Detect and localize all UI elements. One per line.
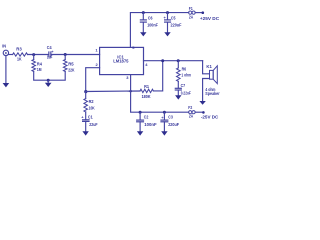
wire <box>64 55 66 60</box>
svg-text:R3: R3 <box>16 47 22 52</box>
svg-text:1M: 1M <box>37 67 42 72</box>
svg-text:C3: C3 <box>168 115 173 120</box>
node junction C5 <box>166 11 169 14</box>
ground <box>164 32 170 36</box>
wire <box>85 112 87 120</box>
wire <box>167 22 169 32</box>
ground <box>161 131 167 135</box>
ground <box>199 101 205 105</box>
resistor R1 <box>140 84 153 99</box>
svg-text:R5: R5 <box>68 61 74 66</box>
node junction R5 <box>64 53 67 56</box>
node terminal +25V <box>202 11 205 14</box>
node junction zobel <box>177 59 180 62</box>
wire <box>139 112 141 120</box>
svg-text:22uF: 22uF <box>89 122 98 127</box>
fuse F2 <box>188 105 195 119</box>
svg-text:C1: C1 <box>88 114 93 119</box>
svg-text:+25V DC: +25V DC <box>200 16 220 21</box>
ground <box>137 131 143 135</box>
node junction C3 <box>163 111 166 114</box>
svg-text:IN: IN <box>2 43 6 48</box>
svg-text:C5: C5 <box>171 15 176 20</box>
wire <box>34 72 49 81</box>
svg-text:2A: 2A <box>189 114 193 119</box>
node junction R4 <box>32 53 35 56</box>
wire signal line <box>9 54 13 56</box>
resistor R5 <box>63 60 75 73</box>
svg-text:C2: C2 <box>144 115 149 120</box>
svg-text:C7: C7 <box>181 83 186 88</box>
svg-text:100nF: 100nF <box>144 122 157 127</box>
svg-text:F1: F1 <box>189 6 193 11</box>
svg-text:+: + <box>81 115 84 120</box>
svg-text:180K: 180K <box>142 94 152 99</box>
wire pin3 to V- rail <box>131 75 189 113</box>
wire <box>163 122 165 131</box>
wire <box>163 112 165 120</box>
node crossing pin3 <box>129 90 132 93</box>
capacitor C3 <box>161 115 179 128</box>
svg-text:1: 1 <box>95 47 98 52</box>
node junction C2 <box>139 111 142 114</box>
input jack J1 <box>2 43 8 55</box>
wire <box>153 61 162 91</box>
svg-text:2: 2 <box>96 62 99 67</box>
svg-text:1K: 1K <box>17 57 22 62</box>
wire <box>28 54 49 56</box>
svg-text:-25V DC: -25V DC <box>201 115 219 120</box>
fuse F1 <box>189 6 196 20</box>
svg-text:LM1875: LM1875 <box>113 58 129 63</box>
wire output to speaker <box>203 61 210 74</box>
wire <box>177 61 179 68</box>
wire <box>51 54 100 56</box>
svg-text:+: + <box>51 49 54 54</box>
speaker K1 <box>205 64 220 96</box>
wire <box>195 111 202 113</box>
svg-text:2A: 2A <box>189 14 193 19</box>
resistor R2 <box>84 99 95 113</box>
node junction ground R4 R5 <box>47 79 50 82</box>
svg-text:Speaker: Speaker <box>205 91 220 96</box>
node terminal -25V <box>202 111 205 114</box>
ground <box>3 83 10 87</box>
wire output pin4 <box>144 60 203 62</box>
wire pin5 to V+ rail <box>130 13 188 48</box>
op-amp IC1 LM1875 <box>100 47 144 74</box>
wire <box>139 122 141 131</box>
node junction pin2 <box>84 90 87 93</box>
svg-text:R6: R6 <box>182 66 187 71</box>
node junction C6 <box>142 11 145 14</box>
capacitor C2 <box>137 115 157 128</box>
wire <box>142 13 144 20</box>
wire <box>33 55 35 60</box>
svg-text:1uF: 1uF <box>47 55 53 60</box>
wire pin2 net <box>86 68 100 92</box>
node junction feedback <box>161 59 164 62</box>
svg-text:4: 4 <box>145 62 148 67</box>
capacitor C6 <box>140 15 158 27</box>
capacitor C1 <box>81 114 98 127</box>
svg-text:F2: F2 <box>188 105 192 110</box>
wire <box>85 92 87 99</box>
svg-text:0.22uF: 0.22uF <box>181 91 191 96</box>
svg-text:C6: C6 <box>148 15 153 20</box>
wire <box>48 72 65 81</box>
svg-text:100nF: 100nF <box>147 22 158 27</box>
wire <box>195 12 202 14</box>
svg-text:+: + <box>161 115 164 120</box>
wire <box>177 90 179 95</box>
svg-text:R4: R4 <box>37 61 43 66</box>
svg-text:1 ohm: 1 ohm <box>181 73 191 78</box>
resistor R3 <box>13 47 28 62</box>
svg-text:3: 3 <box>126 75 129 80</box>
wire jack ground <box>5 56 7 84</box>
svg-text:K1: K1 <box>206 64 212 69</box>
wire <box>177 81 179 88</box>
ground <box>45 80 52 87</box>
svg-text:R2: R2 <box>89 99 95 104</box>
svg-text:+: + <box>164 15 167 20</box>
wire <box>167 13 169 20</box>
ground <box>175 95 181 99</box>
wire feedback <box>86 90 140 93</box>
capacitor C4 <box>47 45 55 60</box>
wire speaker to ground <box>203 79 210 102</box>
svg-text:10K: 10K <box>89 105 96 110</box>
wire <box>142 22 144 32</box>
capacitor C7 <box>175 83 191 95</box>
svg-text:220uF: 220uF <box>168 122 179 127</box>
svg-text:R1: R1 <box>144 84 149 89</box>
svg-text:220uF: 220uF <box>171 22 182 27</box>
ground <box>82 131 88 135</box>
capacitor C5 <box>164 15 182 28</box>
ground <box>140 32 146 36</box>
resistor R4 <box>32 60 43 73</box>
resistor R6 <box>177 66 192 81</box>
wire <box>85 122 87 132</box>
svg-text:22K: 22K <box>68 67 75 72</box>
